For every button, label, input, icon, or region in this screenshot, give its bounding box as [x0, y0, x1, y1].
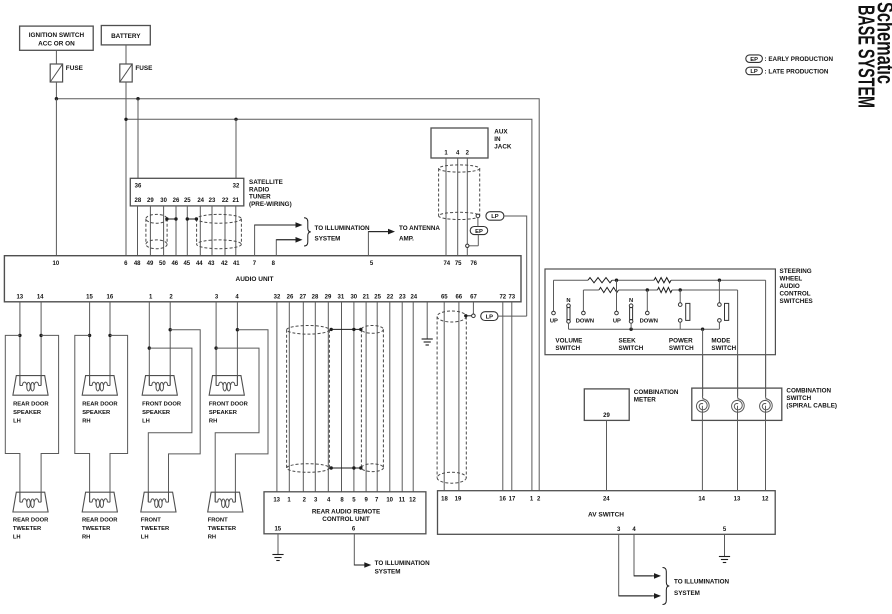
- wire audio pin 7 to illumination: [255, 222, 303, 256]
- resistor R2: [654, 278, 671, 283]
- wire branch right rear RH: [110, 335, 128, 502]
- wire seek N to row C: [630, 323, 632, 329]
- wire audio 1 down: [148, 302, 150, 386]
- node 13 branch: [18, 334, 21, 337]
- shielded cable remote small: [361, 326, 383, 472]
- svg-text:SWITCH: SWITCH: [619, 345, 644, 352]
- wire audio 14 down: [40, 302, 42, 386]
- shield link top: [330, 328, 363, 331]
- svg-text:11: 11: [399, 498, 406, 504]
- rear door speaker RH: [82, 376, 117, 396]
- wire audio 15 down: [89, 302, 91, 386]
- svg-text:SYSTEM: SYSTEM: [375, 569, 401, 576]
- svg-text:FRONT DOOR: FRONT DOOR: [209, 402, 249, 408]
- contact seek UP: [613, 311, 621, 324]
- AV switch U-AV: [438, 491, 776, 535]
- svg-text:19: 19: [455, 496, 462, 502]
- label rear door speaker LH: [13, 402, 49, 425]
- label combination meter: [634, 389, 679, 404]
- wire remote 6 to illumination: [354, 534, 371, 568]
- svg-text:AUX: AUX: [494, 129, 508, 136]
- svg-text:FRONT: FRONT: [208, 518, 228, 524]
- node 67 connector: [472, 314, 476, 318]
- contact mode top: [718, 303, 722, 307]
- svg-text:17: 17: [509, 496, 516, 502]
- wire shield tap to EP: [477, 218, 479, 246]
- shield link to wire 25: [186, 217, 198, 220]
- svg-text:26: 26: [287, 294, 294, 300]
- svg-text:REAR DOOR: REAR DOOR: [13, 518, 49, 524]
- svg-text:SPEAKER: SPEAKER: [82, 410, 111, 416]
- wire audio 31 to remote: [341, 302, 343, 492]
- battery box: [101, 26, 150, 45]
- node row C seek: [629, 328, 632, 331]
- svg-text:SYSTEM: SYSTEM: [674, 590, 700, 597]
- resistor R3: [599, 287, 619, 292]
- label aux in jack: [494, 129, 512, 151]
- wire audio pin 5 to antenna amp: [368, 229, 395, 256]
- wire branch 3 front RH: [215, 348, 259, 502]
- svg-text:AMP.: AMP.: [399, 236, 414, 243]
- svg-text:25: 25: [374, 294, 381, 300]
- wire branch 2 front LH: [169, 330, 201, 502]
- svg-text:30: 30: [350, 294, 357, 300]
- svg-text:RH: RH: [82, 419, 90, 425]
- svg-text:30: 30: [160, 198, 167, 204]
- wire EP to wire 76: [469, 245, 478, 247]
- svg-text:JACK: JACK: [494, 144, 512, 151]
- wire BAT vertical: [125, 82, 127, 256]
- node ACC-tuner junction: [136, 97, 139, 100]
- wire branch 4 front RH: [235, 330, 268, 502]
- shielded cable tuner right: [197, 214, 242, 248]
- tag EP aux shield: [470, 227, 488, 235]
- spiral cable coil 3: [760, 396, 773, 412]
- svg-text:74: 74: [443, 261, 450, 267]
- svg-text:LH: LH: [13, 419, 21, 425]
- rear door tweeter LH: [13, 492, 48, 512]
- label rear door speaker RH: [82, 402, 118, 425]
- ignition switch box: [20, 26, 94, 50]
- node 14 branch: [39, 334, 42, 337]
- svg-text:MODE: MODE: [711, 338, 730, 345]
- wire aux 2 to audio 76: [466, 158, 468, 256]
- wire audio 28 to remote: [314, 302, 316, 492]
- svg-text:21: 21: [232, 198, 239, 204]
- node BAT junction: [124, 118, 127, 121]
- wire row A to spiral 3: [765, 280, 767, 396]
- wire ACC bus: [56, 99, 539, 491]
- svg-text:16: 16: [499, 496, 506, 502]
- svg-text:TWEETER: TWEETER: [82, 526, 111, 532]
- svg-text:LP: LP: [491, 214, 499, 220]
- label power switch: [669, 338, 694, 353]
- wire LP aux to pin 67 junction: [504, 216, 527, 316]
- wire remote 15 to ground: [277, 534, 279, 555]
- front tweeter RH: [208, 492, 243, 512]
- front tweeter LH: [141, 492, 176, 512]
- svg-text:15: 15: [86, 294, 93, 300]
- satellite radio tuner (pre-wiring) U-SAT: [130, 178, 244, 206]
- wire audio 2 down: [169, 302, 171, 386]
- svg-text:23: 23: [209, 198, 216, 204]
- svg-text:FRONT DOOR: FRONT DOOR: [142, 402, 182, 408]
- brace illumination: [304, 218, 311, 246]
- svg-text:66: 66: [455, 294, 462, 300]
- svg-text:22: 22: [387, 294, 394, 300]
- tag LP pin 67: [481, 312, 498, 321]
- svg-text:DOWN: DOWN: [576, 319, 594, 325]
- svg-text:AUDIO UNIT: AUDIO UNIT: [236, 276, 274, 283]
- svg-text:TWEETER: TWEETER: [13, 526, 42, 532]
- svg-text:REAR DOOR: REAR DOOR: [82, 402, 118, 408]
- label rear door tweeter LH: [13, 518, 49, 541]
- svg-text:EP: EP: [750, 57, 758, 63]
- wire audio 65 to AV 18: [443, 302, 445, 491]
- svg-text:STEERING: STEERING: [780, 268, 812, 275]
- label to illumination system remote: [375, 560, 430, 576]
- svg-text:TUNER: TUNER: [249, 194, 271, 201]
- svg-text:LH: LH: [142, 419, 150, 425]
- ground mid: [422, 339, 433, 345]
- svg-text:SWITCH: SWITCH: [786, 395, 811, 402]
- svg-text:BASE SYSTEM: BASE SYSTEM: [854, 5, 880, 108]
- svg-text:LP: LP: [750, 69, 758, 75]
- svg-text:14: 14: [37, 294, 44, 300]
- svg-text:LH: LH: [13, 535, 21, 541]
- svg-text:IGNITION SWITCH: IGNITION SWITCH: [29, 32, 85, 39]
- spiral cable coil 2: [732, 396, 745, 412]
- label mode switch: [711, 338, 736, 353]
- wire tuner to audio pin 50: [163, 206, 165, 256]
- wire steering to spiral 2 entry: [737, 355, 739, 397]
- combination meter box: [584, 389, 629, 421]
- svg-text:SPEAKER: SPEAKER: [209, 410, 238, 416]
- svg-text:RH: RH: [208, 535, 216, 541]
- wire power riser: [679, 290, 681, 303]
- contact seek DOWN: [640, 311, 658, 324]
- wire audio 4 down: [236, 302, 238, 386]
- svg-text:SWITCHES: SWITCHES: [780, 298, 813, 305]
- tag LP aux shield: [486, 212, 504, 221]
- wire audio 72 to AV 16: [502, 302, 504, 491]
- wire audio 32 to remote: [276, 302, 278, 492]
- svg-text:32: 32: [274, 294, 281, 300]
- svg-text:45: 45: [183, 261, 190, 267]
- svg-text:CONTROL: CONTROL: [780, 291, 811, 298]
- svg-text:72: 72: [499, 294, 506, 300]
- wire AV 5 to ground: [724, 534, 726, 556]
- brace AV illumination: [663, 568, 670, 605]
- wire audio 27 to remote: [302, 302, 304, 492]
- svg-text:FRONT: FRONT: [141, 518, 161, 524]
- wire tuner to audio pin 45: [186, 206, 188, 256]
- label front tweeter RH: [208, 518, 237, 541]
- wire tuner to audio pin 44: [199, 206, 201, 256]
- fuse F2: [120, 64, 153, 82]
- wire steering to spiral 3 entry: [765, 355, 767, 397]
- svg-text:26: 26: [173, 198, 180, 204]
- rear door speaker LH: [13, 376, 48, 396]
- node row A mode: [718, 279, 721, 282]
- label to illumination system AV: [674, 579, 729, 598]
- svg-text:AV SWITCH: AV SWITCH: [588, 512, 624, 519]
- svg-text:24: 24: [603, 496, 610, 502]
- svg-text:BATTERY: BATTERY: [111, 33, 141, 40]
- wire audio 24 to remote: [412, 302, 414, 492]
- contact power bottom: [678, 319, 682, 323]
- wire battery to fuse: [125, 45, 127, 64]
- wire audio 23 to remote: [401, 302, 403, 492]
- wire tuner to audio pin 48: [137, 206, 139, 256]
- svg-text:RH: RH: [209, 419, 217, 425]
- combination switch spiral cable box: [692, 388, 782, 420]
- node 3 branch: [214, 346, 217, 349]
- label rear door tweeter RH: [82, 518, 118, 541]
- wire tuner to audio pin 42: [224, 206, 226, 256]
- power switch actuator: [686, 303, 690, 320]
- svg-text:67: 67: [470, 294, 477, 300]
- svg-text:29: 29: [147, 198, 154, 204]
- wire audio 21 to remote: [365, 302, 367, 492]
- svg-text:COMBINATION: COMBINATION: [634, 389, 679, 396]
- svg-text:29: 29: [603, 413, 610, 419]
- node 15 branch: [88, 334, 91, 337]
- resistor R1: [588, 278, 612, 283]
- svg-text:COMBINATION: COMBINATION: [786, 388, 831, 395]
- wire audio 22 to remote: [389, 302, 391, 492]
- node ACC junction: [55, 97, 58, 100]
- wire audio 3 down: [215, 302, 217, 386]
- resistor R4: [658, 287, 673, 292]
- svg-text:49: 49: [147, 261, 154, 267]
- shield link to wire 26: [165, 217, 178, 220]
- svg-text:SWITCH: SWITCH: [669, 345, 694, 352]
- wire spiral 2 to AV 13: [737, 406, 739, 491]
- svg-text:10: 10: [386, 498, 393, 504]
- wire volume up riser: [553, 280, 555, 311]
- svg-text:IN: IN: [494, 136, 501, 143]
- svg-text:LH: LH: [141, 535, 149, 541]
- svg-text:29: 29: [325, 294, 332, 300]
- svg-text:TO ILLUMINATION: TO ILLUMINATION: [315, 225, 370, 232]
- wire steering to spiral 1 entry: [702, 355, 704, 397]
- wire audio 29 to remote: [327, 302, 329, 492]
- svg-text:VOLUME: VOLUME: [555, 338, 582, 345]
- label volume switch: [555, 338, 582, 353]
- wire branch right rear LH: [41, 335, 59, 502]
- svg-text:12: 12: [762, 496, 769, 502]
- title schematic: [872, 2, 892, 84]
- wire audio shield ground: [426, 302, 428, 339]
- wire AV 4 to illumination: [634, 534, 661, 578]
- wire branch 1 front LH: [148, 348, 192, 502]
- label front door speaker RH: [209, 402, 249, 425]
- svg-text:SPEAKER: SPEAKER: [13, 410, 42, 416]
- svg-text:75: 75: [455, 261, 462, 267]
- wire row C: [569, 328, 720, 330]
- svg-text:: EARLY PRODUCTION: : EARLY PRODUCTION: [765, 56, 834, 63]
- svg-text:15: 15: [274, 527, 281, 533]
- wire mode riser: [718, 280, 720, 303]
- svg-text:SEEK: SEEK: [619, 338, 637, 345]
- legend LP: [746, 67, 829, 75]
- svg-text:: LATE PRODUCTION: : LATE PRODUCTION: [765, 68, 829, 75]
- node row B power: [679, 288, 682, 291]
- node 2 branch: [169, 328, 172, 331]
- node aux shield tap: [476, 214, 480, 218]
- volume N arm: [566, 298, 570, 323]
- svg-text:24: 24: [410, 294, 417, 300]
- svg-text:SYSTEM: SYSTEM: [315, 236, 341, 243]
- wire power to row C: [679, 322, 681, 329]
- node shield tap 65/66: [464, 314, 467, 317]
- label satellite radio tuner: [249, 179, 292, 208]
- svg-text:REAR DOOR: REAR DOOR: [13, 402, 49, 408]
- svg-text:76: 76: [470, 261, 477, 267]
- node row A seek: [615, 279, 618, 282]
- wire volume N to row C: [568, 323, 570, 329]
- svg-text:28: 28: [135, 198, 142, 204]
- svg-text:12: 12: [409, 498, 416, 504]
- node EP tap on wire 76: [466, 244, 469, 247]
- wire volume down riser: [582, 290, 584, 311]
- seek N arm: [629, 298, 633, 323]
- title base system: [854, 5, 880, 108]
- wire aux 1 to audio 74: [445, 158, 447, 256]
- svg-text:46: 46: [171, 261, 178, 267]
- wire spiral 3 to AV 12: [765, 406, 767, 491]
- wire bus to tuner pin 32: [235, 119, 237, 178]
- svg-text:(SPIRAL CABLE): (SPIRAL CABLE): [786, 403, 837, 410]
- svg-text:42: 42: [221, 261, 228, 267]
- node row B seek: [646, 288, 649, 291]
- svg-text:ACC OR ON: ACC OR ON: [38, 41, 75, 48]
- label front tweeter LH: [141, 518, 170, 541]
- svg-text:REAR AUDIO REMOTE: REAR AUDIO REMOTE: [312, 509, 380, 516]
- wire seek down riser: [646, 290, 648, 311]
- wire shield tap to circle: [466, 315, 472, 317]
- svg-text:SWITCH: SWITCH: [555, 345, 580, 352]
- front door speaker LH: [142, 376, 177, 396]
- svg-text:44: 44: [196, 261, 203, 267]
- svg-text:22: 22: [222, 198, 229, 204]
- svg-text:28: 28: [312, 294, 319, 300]
- legend EP: [746, 55, 834, 63]
- wire branch left rear RH: [75, 335, 90, 502]
- node 4 branch: [236, 328, 239, 331]
- mode switch actuator: [725, 303, 729, 320]
- label steering wheel switches: [780, 268, 813, 305]
- wire row B to spiral 2: [737, 290, 739, 396]
- svg-text:31: 31: [338, 294, 345, 300]
- shielded cable remote large: [287, 326, 330, 473]
- svg-text:TO ANTENNA: TO ANTENNA: [399, 225, 440, 232]
- wire tuner to audio pin 49: [149, 206, 151, 256]
- svg-text:METER: METER: [634, 397, 656, 404]
- svg-text:TO ILLUMINATION: TO ILLUMINATION: [375, 560, 430, 567]
- svg-text:N: N: [566, 298, 570, 304]
- front door speaker RH: [209, 376, 244, 396]
- svg-text:65: 65: [441, 294, 448, 300]
- svg-text:25: 25: [184, 198, 191, 204]
- svg-text:50: 50: [159, 261, 166, 267]
- shielded cable 65/66: [437, 311, 466, 483]
- steering wheel switches box: [545, 269, 775, 355]
- svg-text:SWITCH: SWITCH: [711, 345, 736, 352]
- node BAT-tuner junction: [234, 118, 237, 121]
- ground AV: [719, 557, 730, 563]
- wire ignition to fuse: [55, 50, 57, 64]
- node 16 branch: [108, 334, 111, 337]
- wire bus to tuner pin 36: [137, 99, 139, 179]
- svg-text:POWER: POWER: [669, 338, 693, 345]
- wire LP67 to vertical: [498, 315, 527, 317]
- svg-text:FUSE: FUSE: [135, 65, 153, 72]
- wire tuner to audio pin 46: [175, 206, 177, 256]
- label to illumination system: [315, 225, 370, 243]
- svg-text:10: 10: [53, 261, 60, 267]
- svg-text:48: 48: [134, 261, 141, 267]
- svg-text:SPEAKER: SPEAKER: [142, 410, 171, 416]
- svg-text:TWEETER: TWEETER: [141, 526, 170, 532]
- wire audio 73 to AV 17: [511, 302, 513, 491]
- fuse F1: [50, 64, 83, 82]
- svg-text:RADIO: RADIO: [249, 186, 269, 193]
- contact volume UP: [550, 311, 558, 324]
- svg-text:18: 18: [441, 496, 448, 502]
- ground remote: [272, 555, 283, 561]
- shield link bottom: [330, 466, 363, 469]
- svg-text:23: 23: [399, 294, 406, 300]
- svg-text:13: 13: [16, 294, 23, 300]
- svg-text:43: 43: [208, 261, 215, 267]
- svg-text:73: 73: [508, 294, 515, 300]
- shielded cable aux: [439, 165, 480, 220]
- svg-text:21: 21: [363, 294, 370, 300]
- wire BAT bus: [126, 119, 532, 491]
- wire aux 4 to audio 75: [457, 158, 459, 256]
- wire audio 67 down: [472, 302, 474, 314]
- svg-text:FUSE: FUSE: [66, 65, 84, 72]
- svg-text:14: 14: [698, 496, 705, 502]
- contact power top: [678, 303, 682, 307]
- wire row A: [554, 279, 766, 281]
- label to antenna amp: [399, 225, 440, 243]
- wire audio pin 8 to illumination: [276, 237, 302, 256]
- wire audio 13 down: [19, 302, 21, 386]
- svg-text:TO ILLUMINATION: TO ILLUMINATION: [674, 579, 729, 586]
- svg-text:27: 27: [299, 294, 306, 300]
- wire audio 16 down: [109, 302, 111, 386]
- label seek switch: [619, 338, 644, 353]
- wire audio 66 to AV 19: [458, 302, 460, 491]
- wire tuner to audio pin 43: [211, 206, 213, 256]
- svg-text:UP: UP: [550, 319, 558, 325]
- wire audio 30 to remote: [353, 302, 355, 492]
- aux in jack box: [431, 128, 488, 158]
- wire AV 3 to illumination: [619, 534, 661, 598]
- wire row B: [583, 289, 737, 291]
- rear door tweeter RH: [82, 492, 117, 512]
- wire branch left rear LH: [5, 335, 20, 502]
- svg-text:16: 16: [107, 294, 114, 300]
- wire seek up riser: [616, 280, 618, 311]
- svg-text:CONTROL UNIT: CONTROL UNIT: [322, 516, 370, 523]
- label combination switch: [786, 388, 837, 410]
- wire mode to row C: [718, 322, 720, 329]
- svg-text:24: 24: [197, 198, 204, 204]
